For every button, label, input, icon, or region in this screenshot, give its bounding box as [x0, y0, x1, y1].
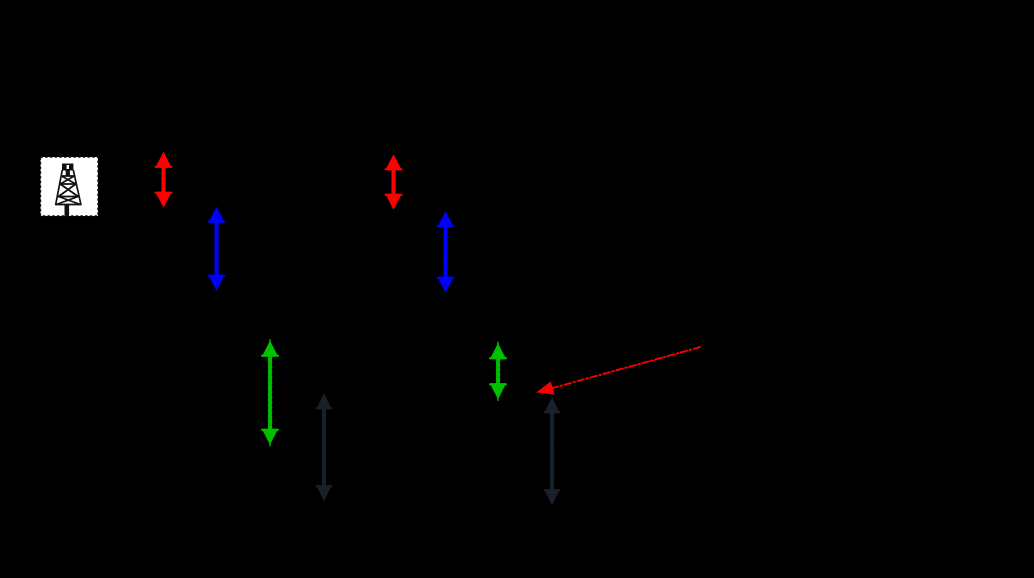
derrick icon	[56, 164, 81, 205]
X bracing	[60, 176, 76, 184]
crown block	[62, 164, 73, 171]
blue arrow 2 (middle pair)	[437, 213, 455, 292]
horizontal braces	[61, 175, 74, 177]
well symbol box	[41, 157, 99, 216]
dark arrow 2	[544, 399, 561, 505]
left leg	[56, 171, 63, 205]
red annotation arrow	[538, 347, 702, 394]
dark arrow 1	[316, 395, 333, 501]
red arrow 2 (middle pair)	[385, 156, 403, 209]
right leg	[73, 171, 81, 205]
monkey board	[66, 171, 70, 176]
blue arrow 1 (left pair)	[208, 208, 226, 290]
green arrow 1	[261, 339, 279, 446]
green arrow 2	[489, 342, 507, 401]
wellbore line	[65, 205, 70, 217]
red arrow 1 (left pair)	[155, 153, 173, 207]
